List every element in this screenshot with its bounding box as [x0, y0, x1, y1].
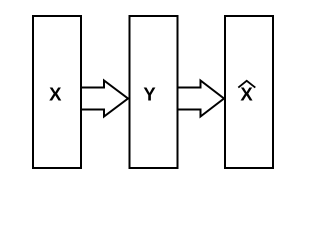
arrow Y to X-hat [178, 81, 225, 117]
svg-text:X: X [240, 84, 253, 105]
svg-text:Y: Y [143, 84, 156, 105]
block X-hat (estimate) [225, 16, 273, 168]
arrow X to Y [81, 81, 128, 117]
block Y (channel) [130, 16, 178, 168]
svg-text:X: X [49, 84, 62, 105]
hat accent over X [238, 81, 255, 88]
block X (source) [33, 16, 81, 168]
